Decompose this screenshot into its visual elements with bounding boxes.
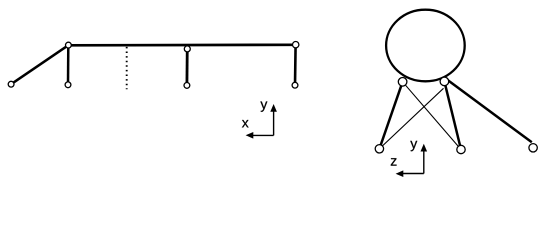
wire thick long diagonal [444, 78, 532, 143]
axes left: x axis [246, 132, 274, 139]
node joint C [65, 82, 71, 88]
wire vertical link 3 [294, 45, 297, 85]
wire vertical link 1 [67, 45, 70, 85]
node foot left [375, 145, 383, 153]
node joint F [293, 42, 299, 48]
dotted line [126, 47, 128, 89]
wire horizontal beam [68, 43, 295, 46]
axes right: z axis [396, 170, 424, 177]
wire diagonal link [11, 45, 68, 84]
node far right [529, 144, 537, 152]
wire thick link right [444, 81, 461, 149]
wire thin cross link 2 [379, 88, 443, 149]
node joint E [184, 83, 190, 89]
wire vertical link 2 [185, 45, 188, 86]
label y (right axes) [410, 141, 417, 151]
node joint D [184, 46, 190, 52]
node joint G [292, 82, 298, 88]
label x (left axes) [242, 120, 249, 127]
axes right: y axis [421, 144, 428, 174]
node joint A [8, 81, 14, 87]
body ellipse [386, 10, 465, 82]
label y (left axes) [260, 102, 267, 112]
axes left: y axis [270, 104, 277, 135]
node hub right [440, 77, 449, 86]
wire thick link left [379, 82, 402, 149]
node hub left [398, 78, 407, 87]
label z (right axes) [391, 158, 397, 165]
node foot right [457, 145, 465, 153]
wire thin cross link 1 [403, 82, 461, 150]
node joint B [66, 42, 72, 48]
